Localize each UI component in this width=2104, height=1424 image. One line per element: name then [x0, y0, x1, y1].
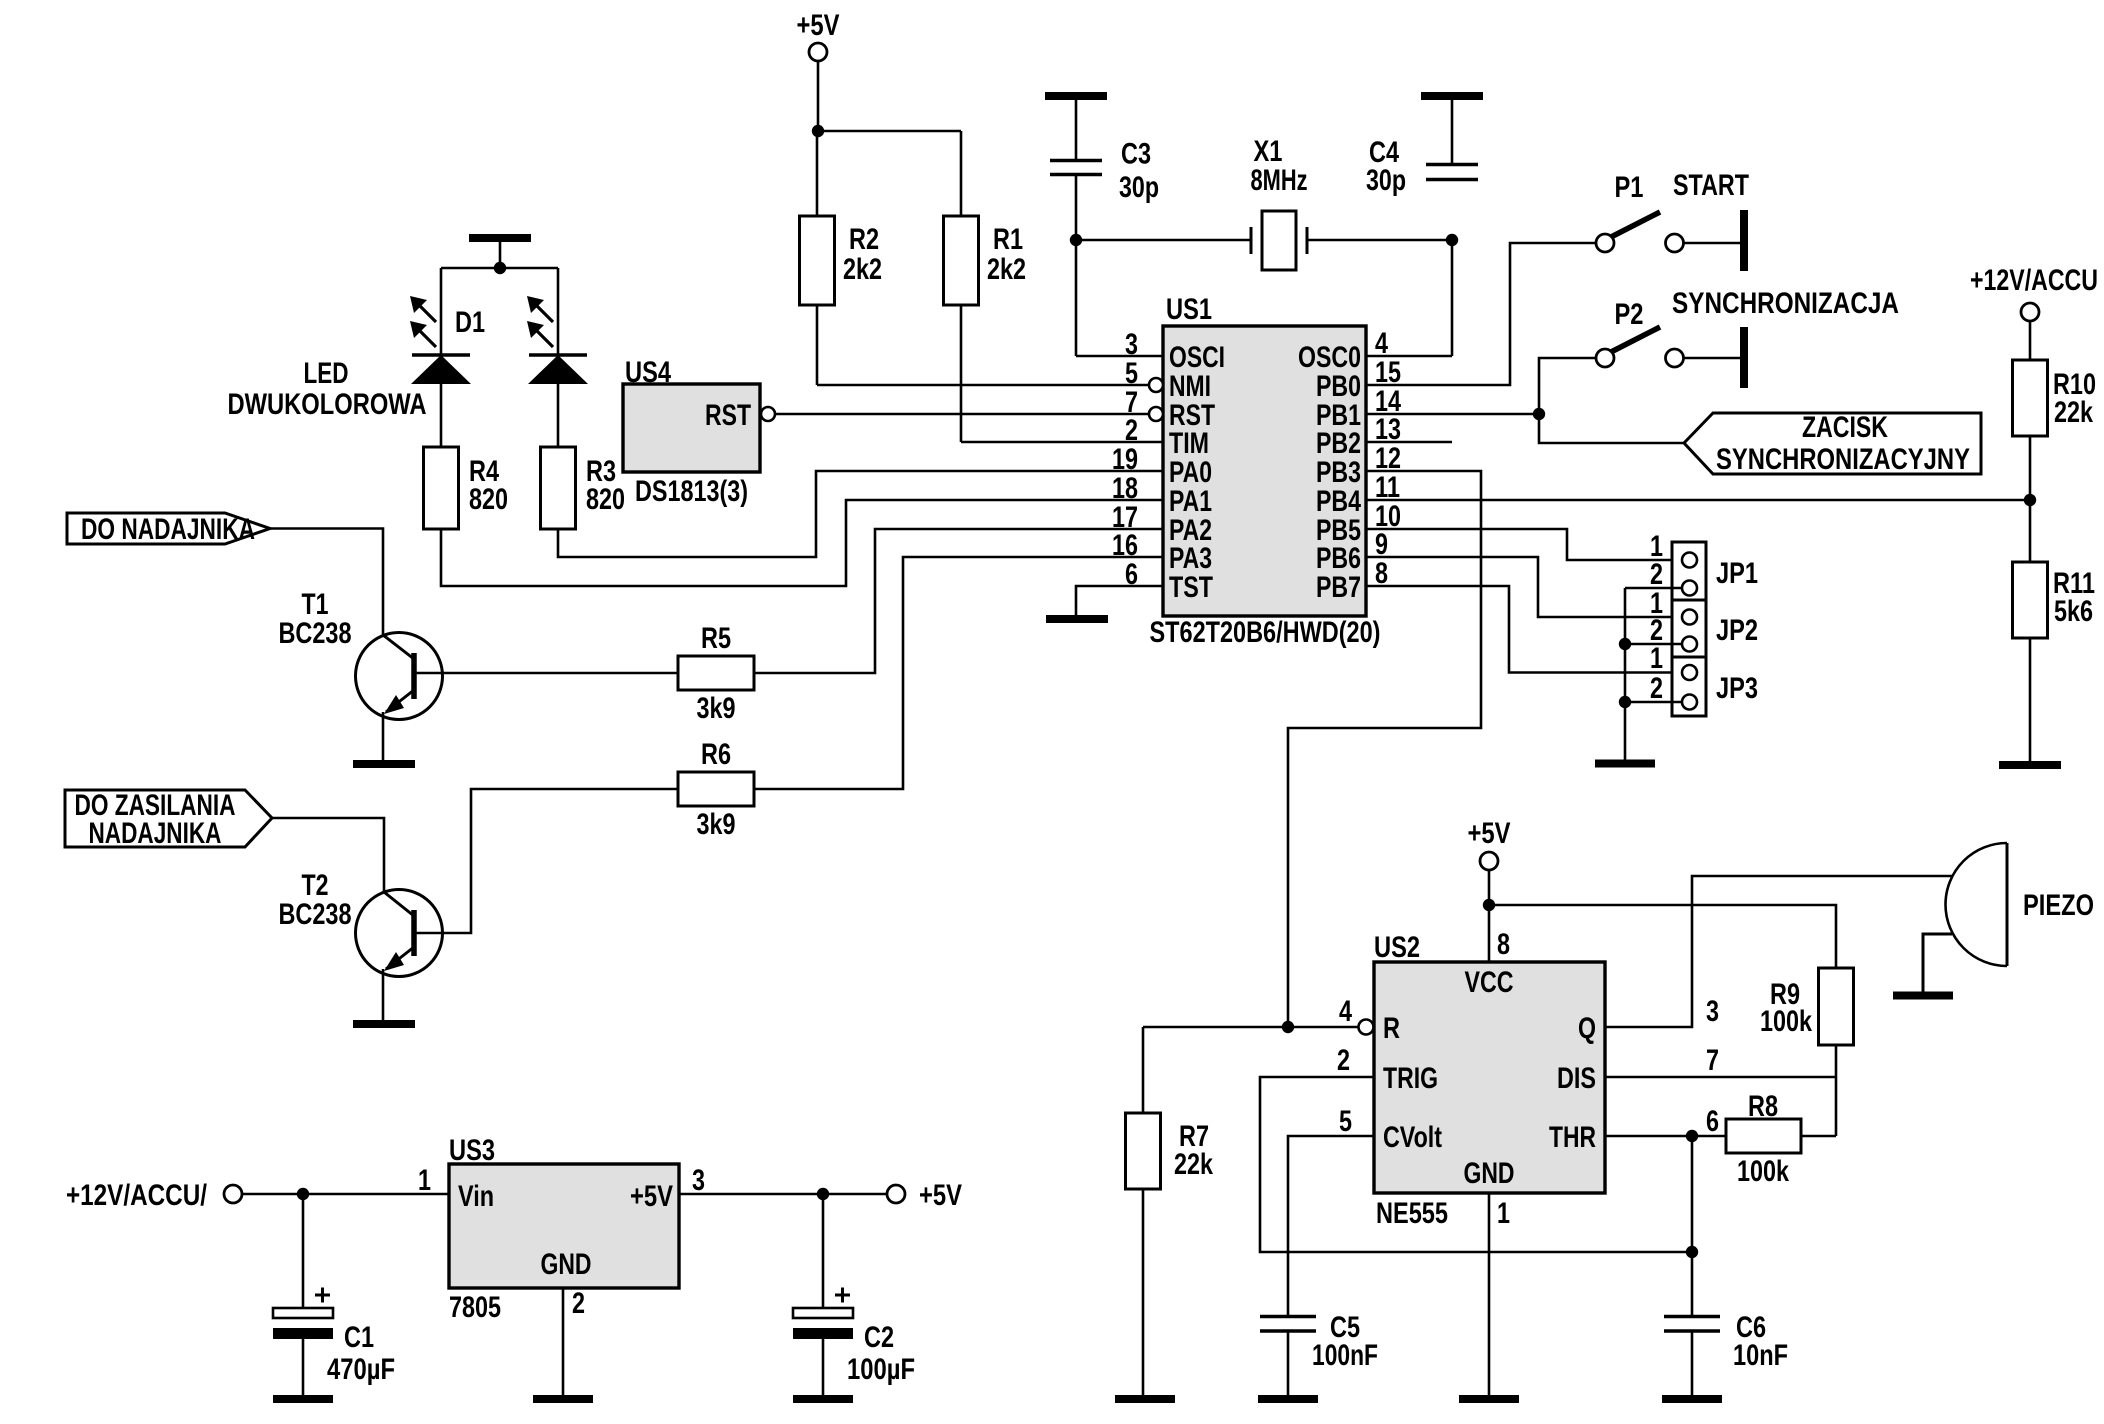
node +5V junction: [812, 125, 824, 137]
node JP2 pin2: [1619, 638, 1631, 650]
ground (C5): [1258, 1395, 1318, 1403]
power terminal +5V (top): [809, 43, 827, 61]
wire PB3 pin 12 to US2 R pin 4: [1288, 471, 1481, 1027]
wire TRIG pin 2 loop: [1260, 1077, 1692, 1252]
wire C3 bottom to OSCI pin 3: [1075, 176, 1078, 356]
resistor R7: [1126, 1113, 1161, 1189]
jumper JP2: [1672, 600, 1706, 657]
wire PB7 pin 8 to JP3: [1366, 586, 1682, 673]
wire T1 emitter to ground: [382, 712, 385, 761]
capacitor C2 (polarized): [793, 1308, 853, 1318]
svg-text:SYNCHRONIZACYJNY: SYNCHRONIZACYJNY: [1716, 443, 1970, 476]
svg-text:DWUKOLOROWA: DWUKOLOROWA: [228, 388, 427, 421]
svg-text:100nF: 100nF: [1312, 1339, 1378, 1372]
svg-text:R5: R5: [701, 622, 731, 655]
svg-text:US2: US2: [1374, 931, 1420, 964]
node C3/X1 junction: [1070, 234, 1082, 246]
svg-text:GND: GND: [1464, 1157, 1515, 1190]
svg-text:P2: P2: [1615, 298, 1644, 331]
svg-text:2: 2: [572, 1287, 585, 1320]
wire node to P2: [1539, 358, 1596, 414]
flag DO ZASILANIA NADAJNIKA: [65, 790, 272, 847]
svg-text:GND: GND: [541, 1248, 592, 1281]
wire JP ground rail: [1624, 588, 1627, 760]
microcontroller US1 ST62T20B6: [1163, 326, 1366, 616]
svg-text:7805: 7805: [449, 1291, 501, 1324]
ground (T1 emitter): [353, 760, 415, 768]
svg-text:JP3: JP3: [1716, 672, 1758, 705]
wire T2 base to R6: [414, 789, 678, 933]
ground (piezo): [1893, 992, 1953, 1000]
svg-text:6: 6: [1706, 1105, 1719, 1138]
svg-text:NADAJNIKA: NADAJNIKA: [89, 817, 222, 850]
svg-text:3: 3: [692, 1164, 705, 1197]
resistor R5: [678, 656, 754, 690]
svg-text:PB7: PB7: [1316, 571, 1361, 604]
svg-text:+5V: +5V: [797, 9, 840, 42]
svg-text:100k: 100k: [1737, 1155, 1789, 1188]
wire C1 top: [302, 1194, 305, 1308]
ground (C2): [793, 1395, 853, 1403]
svg-text:LED: LED: [304, 357, 349, 390]
wire crystal X1 to C4 junction: [1307, 239, 1452, 242]
svg-text:8MHz: 8MHz: [1251, 164, 1308, 197]
wire junction to R7: [1143, 1026, 1288, 1029]
wire R7 top: [1142, 1027, 1145, 1113]
ground (R11): [1999, 761, 2061, 769]
node C2 junction: [817, 1188, 829, 1200]
wire C1 to ground: [302, 1338, 305, 1396]
svg-text:7: 7: [1706, 1044, 1719, 1077]
node C6 junction: [1686, 1246, 1698, 1258]
svg-text:+5V: +5V: [630, 1180, 673, 1213]
node JP3 pin2: [1619, 696, 1631, 708]
svg-text:ST62T20B6/HWD(20): ST62T20B6/HWD(20): [1150, 616, 1381, 649]
wire R4 to PA1 pin 18: [441, 500, 1163, 586]
wire THR pin 6 to R8: [1605, 1135, 1726, 1138]
wire R1 to TIM pin 2: [960, 305, 963, 442]
wire CVolt pin 5 to C5: [1288, 1136, 1374, 1316]
svg-text:PIEZO: PIEZO: [2023, 889, 2094, 922]
svg-text:P1: P1: [1615, 171, 1644, 204]
svg-text:C3: C3: [1121, 138, 1151, 171]
svg-text:SYNCHRONIZACJA: SYNCHRONIZACJA: [1672, 287, 1899, 320]
LED D1 left arrows: [420, 306, 436, 347]
timer US2 NE555: [1374, 962, 1605, 1193]
svg-text:R1: R1: [993, 223, 1023, 256]
node PB1 junction: [1533, 408, 1545, 420]
wire DIS pin 7 to R9/R8: [1605, 1076, 1836, 1079]
piezo transducer: [1945, 843, 2007, 966]
wire C2 top: [822, 1194, 825, 1308]
resistor R11: [2013, 562, 2048, 638]
node D1 common junction: [494, 262, 506, 274]
svg-text:NE555: NE555: [1376, 1197, 1448, 1230]
switch P1: [1596, 234, 1614, 252]
flag ZACISK SYNCHRONIZACYJNY: [1684, 413, 1981, 474]
wire D1 common: [499, 242, 502, 268]
svg-text:3k9: 3k9: [697, 692, 736, 725]
svg-text:DO NADAJNIKA: DO NADAJNIKA: [81, 513, 255, 546]
svg-text:TRIG: TRIG: [1383, 1062, 1438, 1095]
wire R7 to ground: [1142, 1189, 1145, 1396]
wire TST pin 6 to ground: [1076, 586, 1163, 615]
wire R9 bottom to R8 right: [1835, 1045, 1838, 1136]
svg-text:R6: R6: [701, 738, 731, 771]
wire Q pin 3 to piezo: [1605, 876, 1952, 1027]
ground (R7): [1115, 1395, 1175, 1403]
svg-text:Q: Q: [1578, 1012, 1596, 1045]
wire node to R11: [2029, 500, 2032, 562]
wire input to US3 Vin: [242, 1193, 449, 1196]
svg-text:470µF: 470µF: [327, 1353, 395, 1386]
node C4/X1 junction: [1446, 234, 1458, 246]
wire +5V stem: [817, 61, 820, 132]
wire piezo to ground: [1923, 934, 1952, 992]
ground (above C4): [1421, 92, 1483, 100]
wire C6 to ground: [1691, 1333, 1694, 1397]
ground (JP): [1595, 760, 1655, 768]
svg-text:5k6: 5k6: [2054, 595, 2093, 628]
svg-text:1: 1: [1650, 642, 1663, 675]
wire US3 GND pin 2 to ground: [562, 1288, 565, 1396]
resistor R10: [2013, 360, 2048, 436]
wire PB4 pin 11 to divider node: [1366, 499, 2030, 502]
resistor R6: [678, 772, 754, 806]
wire R2 to NMI pin 5: [816, 305, 819, 385]
wire R3 to PA0 pin 19: [558, 471, 1163, 557]
svg-text:10nF: 10nF: [1733, 1339, 1788, 1372]
wire T2 emitter to ground: [382, 969, 385, 1020]
svg-text:820: 820: [469, 483, 508, 516]
svg-text:DS1813(3): DS1813(3): [635, 475, 748, 508]
reset supervisor US4 DS1813: [623, 384, 760, 472]
wire T1 base to R5: [414, 672, 678, 675]
resistor R4: [424, 447, 459, 529]
wire PB0 pin 15 to P1: [1366, 243, 1596, 385]
node VCC junction: [1483, 899, 1495, 911]
wire junction down to OSC0 pin 4: [1451, 240, 1454, 356]
transistor T2 BC238: [356, 890, 443, 977]
wire US3 output to +5V terminal: [679, 1193, 888, 1196]
voltage regulator US3 7805: [449, 1164, 679, 1288]
svg-text:30p: 30p: [1366, 164, 1406, 197]
svg-text:22k: 22k: [1174, 1148, 1213, 1181]
svg-text:R2: R2: [849, 223, 879, 256]
resistor R2: [800, 216, 835, 305]
resistor R8: [1726, 1119, 1801, 1153]
wire JP1 pin2 to ground rail: [1625, 587, 1682, 590]
svg-text:RST: RST: [705, 399, 751, 432]
svg-text:US3: US3: [449, 1134, 495, 1167]
svg-text:JP2: JP2: [1716, 614, 1758, 647]
capacitor C5: [1260, 1315, 1316, 1319]
ground (above D1): [469, 234, 531, 242]
svg-text:DIS: DIS: [1557, 1062, 1596, 1095]
svg-text:START: START: [1673, 169, 1749, 202]
LED D1 right arrows: [537, 306, 553, 347]
node THR junction: [1686, 1130, 1698, 1142]
jumper JP3: [1672, 657, 1706, 716]
US2 R inverting bubble: [1359, 1020, 1374, 1035]
capacitor C3: [1050, 159, 1102, 163]
svg-text:Vin: Vin: [458, 1180, 494, 1213]
power terminal +5V (US2): [1480, 852, 1498, 870]
svg-text:D1: D1: [455, 306, 485, 339]
ground (TST): [1046, 615, 1108, 623]
svg-text:2k2: 2k2: [843, 253, 882, 286]
ground (C1): [273, 1395, 333, 1403]
capacitor C4: [1426, 163, 1478, 167]
svg-text:820: 820: [586, 483, 625, 516]
wire R5 to PA2 pin 17: [754, 529, 1163, 673]
node R10/R11 divider: [2024, 494, 2036, 506]
svg-text:1: 1: [418, 1164, 431, 1197]
svg-text:4: 4: [1339, 995, 1352, 1028]
LED D1 right half: [557, 268, 560, 355]
svg-text:+12V/ACCU: +12V/ACCU: [1970, 264, 2098, 297]
svg-text:2: 2: [1650, 672, 1663, 705]
resistor R3: [541, 447, 576, 529]
svg-text:+5V: +5V: [919, 1179, 962, 1212]
wire C3 top: [1075, 99, 1078, 160]
ground (US3): [533, 1395, 593, 1403]
svg-text:BC238: BC238: [279, 617, 352, 650]
svg-text:CVolt: CVolt: [1383, 1121, 1442, 1154]
US4 RST output bubble: [761, 407, 775, 421]
svg-text:8: 8: [1497, 928, 1510, 961]
power terminal +12V/ACCU: [2021, 303, 2039, 321]
svg-text:22k: 22k: [2054, 396, 2093, 429]
resistor R1: [944, 216, 979, 305]
svg-text:3: 3: [1706, 995, 1719, 1028]
wire PB1 pin 14 to P2 node: [1366, 413, 1539, 416]
svg-text:R8: R8: [1748, 1090, 1778, 1123]
crystal X1: [1250, 227, 1253, 254]
svg-text:VCC: VCC: [1465, 966, 1514, 999]
wire PB5 pin 10 to JP1: [1366, 529, 1682, 560]
node C1 junction: [297, 1188, 309, 1200]
svg-text:2: 2: [1337, 1044, 1350, 1077]
wire D1 right to R3: [557, 384, 560, 447]
wire PB6 pin 9 to JP2: [1366, 557, 1682, 617]
svg-text:+5V: +5V: [1468, 817, 1511, 850]
wire THR node down to C6 node: [1691, 1136, 1694, 1252]
svg-text:C2: C2: [864, 1321, 894, 1354]
flag DO NADAJNIKA: [67, 513, 270, 544]
node R pin junction: [1282, 1021, 1294, 1033]
svg-text:TST: TST: [1169, 571, 1213, 604]
US1 RST inverting bubble: [1149, 407, 1163, 421]
wire +5V to VCC pin 8: [1488, 870, 1491, 963]
svg-text:R: R: [1383, 1012, 1400, 1045]
svg-text:+12V/ACCU/: +12V/ACCU/: [66, 1179, 208, 1212]
wire C4 top: [1451, 99, 1454, 164]
ground (C6): [1662, 1395, 1722, 1403]
LED D1 left half: [440, 268, 443, 355]
wire R11 to ground: [2029, 638, 2032, 761]
wire flag to T1 collector: [270, 529, 383, 636]
ground (US2 GND): [1459, 1395, 1519, 1403]
svg-text:C1: C1: [344, 1321, 374, 1354]
svg-text:3k9: 3k9: [697, 808, 736, 841]
wire +12V to R10: [2029, 321, 2032, 361]
wire +5V to R1 branch: [817, 130, 961, 133]
resistor R9: [1819, 968, 1854, 1045]
svg-text:5: 5: [1339, 1105, 1352, 1138]
svg-text:ZACISK: ZACISK: [1802, 411, 1888, 444]
svg-text:1: 1: [1497, 1197, 1510, 1230]
jumper JP1: [1672, 542, 1706, 600]
wire junction to crystal X1: [1076, 239, 1252, 242]
transistor T1 BC238: [356, 633, 443, 720]
svg-text:BC238: BC238: [279, 898, 352, 931]
wire node to ZACISK flag: [1539, 414, 1684, 443]
wire C2 to ground: [822, 1338, 825, 1396]
svg-text:US1: US1: [1166, 293, 1212, 326]
wire C6 top: [1691, 1252, 1694, 1316]
wire R6 to PA3 pin 16: [754, 557, 1163, 789]
svg-text:JP1: JP1: [1716, 557, 1758, 590]
wire PB2 pin 13 stub: [1366, 441, 1452, 444]
ground (above C3): [1045, 92, 1107, 100]
svg-text:US4: US4: [625, 356, 671, 389]
wire VCC node to R9: [1489, 905, 1836, 968]
svg-text:THR: THR: [1549, 1121, 1596, 1154]
wire US4 RST to US1 RST pin 7: [775, 413, 1149, 416]
wire US2 GND pin 1 to ground: [1488, 1193, 1491, 1396]
svg-text:2k2: 2k2: [987, 253, 1026, 286]
svg-text:30p: 30p: [1119, 171, 1159, 204]
svg-text:100µF: 100µF: [847, 1353, 915, 1386]
power terminal +5V (output): [887, 1185, 905, 1203]
capacitor C6: [1664, 1315, 1720, 1319]
wire flag to T2 collector: [272, 818, 384, 892]
capacitor C1 (polarized): [273, 1308, 333, 1318]
US1 NMI inverting bubble: [1149, 378, 1163, 392]
ground (T2 emitter): [353, 1020, 415, 1028]
wire C5 to ground: [1287, 1333, 1290, 1397]
svg-text:100k: 100k: [1760, 1005, 1812, 1038]
wire D1 left to R4: [440, 384, 443, 447]
switch P2: [1596, 349, 1614, 367]
